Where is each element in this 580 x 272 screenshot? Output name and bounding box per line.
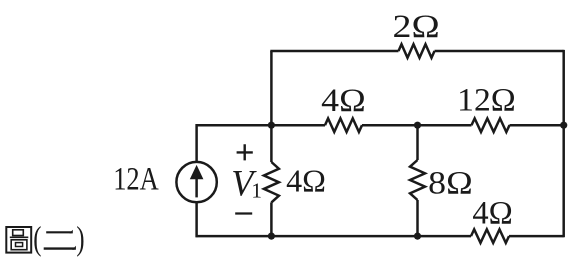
wire: current source bottom terminal down to bottom rail bbox=[195, 202, 198, 237]
wire: V1 branch lower lead (4ohm resistor down to node D) bbox=[270, 202, 273, 236]
wire: middle rail left segment (left corner above source to node A) bbox=[196, 124, 326, 127]
resistor 12ohm (middle rail right, horizontal zigzag) bbox=[472, 118, 510, 132]
svg-text:8Ω: 8Ω bbox=[428, 165, 473, 201]
resistor 4ohm (middle rail left, horizontal zigzag) bbox=[325, 118, 362, 132]
wire: middle rail center segment (4ohm resistor to 12ohm resistor) bbox=[362, 124, 472, 127]
wire: right vertical rail (top-right corner down to bottom-right corner) bbox=[562, 50, 565, 237]
svg-text:12Ω: 12Ω bbox=[457, 83, 516, 119]
node D (bottom rail / V1 branch junction) bbox=[268, 233, 275, 240]
svg-text:12A: 12A bbox=[113, 162, 159, 198]
current source I1 arrow head (upward filled triangle) bbox=[190, 165, 204, 179]
resistor 8ohm (vertical zigzag) bbox=[410, 160, 425, 200]
svg-text:4Ω: 4Ω bbox=[321, 83, 366, 119]
wire: 8ohm branch lower lead (resistor down to node E) bbox=[416, 200, 419, 236]
wire: top-left vertical segment from node A up to top rail bbox=[270, 51, 273, 125]
resistor 2ohm (top rail, horizontal zigzag) bbox=[399, 44, 435, 58]
caption glyph ER (Chinese: two) drawn as strokes bbox=[44, 230, 76, 250]
wire: bottom rail right segment (4ohm resistor to bottom-right corner) bbox=[509, 235, 564, 238]
wire: V1 branch upper lead (node A down to 4ohm resistor) bbox=[270, 125, 273, 162]
current source I1 arrow tail (vertical line inside circle) bbox=[195, 177, 198, 197]
wire: 8ohm branch upper lead (node B down to resistor) bbox=[416, 125, 419, 160]
current source I1 12A (circle symbol) bbox=[176, 162, 216, 202]
svg-text:1: 1 bbox=[251, 179, 262, 203]
resistor 4ohm / V1 branch (vertical zigzag) bbox=[264, 162, 279, 202]
caption glyph TU (Chinese: figure) drawn as strokes bbox=[6, 227, 31, 253]
wire: top rail left segment (node A corner to resistor R2ohm) bbox=[270, 50, 398, 53]
svg-text:4Ω: 4Ω bbox=[286, 163, 326, 199]
node B (middle rail / 8ohm branch junction) bbox=[414, 122, 421, 129]
svg-text:2Ω: 2Ω bbox=[393, 9, 440, 45]
node C (middle rail / right rail junction) bbox=[560, 122, 567, 129]
svg-text:4Ω: 4Ω bbox=[472, 196, 512, 232]
polarity label - (bottom of V1) bbox=[235, 212, 252, 214]
wire: bottom rail left segment (below source, to resistor 4ohm bottom) bbox=[196, 235, 472, 238]
resistor 4ohm (bottom rail, horizontal zigzag) bbox=[471, 229, 509, 243]
wire: middle rail right segment (12ohm resistor to node C on right rail) bbox=[510, 124, 564, 127]
svg-text:): ) bbox=[76, 220, 84, 257]
node A (middle rail / V1 branch junction) bbox=[268, 122, 275, 129]
wire: top rail right segment (resistor 2ohm to top-right corner) bbox=[435, 50, 564, 53]
wire: left drop from middle rail to current source top terminal bbox=[195, 124, 198, 162]
svg-text:(: ( bbox=[33, 220, 41, 257]
polarity label + (top of V1) bbox=[237, 144, 253, 160]
node E (bottom rail / 8ohm branch junction) bbox=[414, 233, 421, 240]
